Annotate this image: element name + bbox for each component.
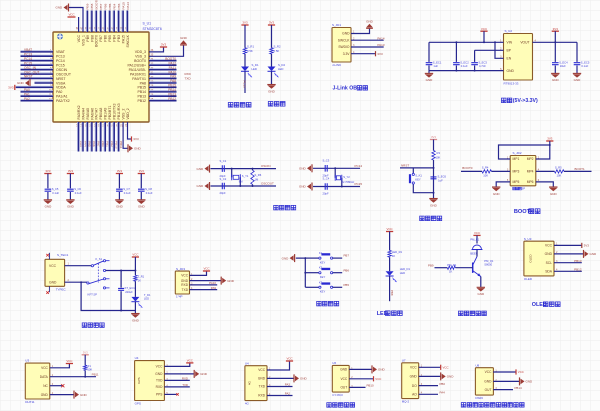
wire top PB8 [90, 11, 92, 33]
svg-text:PM_Q1: PM_Q1 [484, 259, 494, 263]
svg-text:0.1uF: 0.1uF [124, 191, 131, 195]
svg-text:GND: GND [426, 78, 434, 82]
svg-text:GPS: GPS [135, 401, 141, 405]
svg-text:PB0/A8: PB0/A8 [99, 108, 103, 120]
svg-text:MP4: MP4 [527, 170, 534, 174]
svg-text:PB6: PB6 [344, 268, 350, 272]
wire VOUT [533, 41, 578, 43]
svg-text:S_K1: S_K1 [415, 174, 422, 178]
svg-text:J-LINK: J-LINK [332, 63, 341, 67]
svg-text:NRST: NRST [401, 164, 409, 168]
connector U3 DHT11 [25, 363, 50, 399]
svg-text:VCC: VCC [41, 366, 48, 370]
wire VIN rail [429, 41, 504, 43]
svg-text:GND: GND [590, 252, 598, 256]
svg-text:3V3: 3V3 [431, 135, 436, 139]
svg-text:PA11/USB-: PA11/USB- [129, 68, 147, 72]
svg-text:PB5: PB5 [108, 3, 112, 9]
wire PA9 [149, 76, 177, 78]
svg-text:GND: GND [56, 6, 64, 10]
resistor S_R4 10K [482, 170, 492, 173]
label power 5V to 3.3V [502, 98, 507, 103]
svg-text:SWDIO: SWDIO [338, 45, 350, 49]
svg-text:PB13: PB13 [574, 259, 582, 263]
label key circuit [317, 301, 322, 306]
svg-text:GND: GND [268, 89, 276, 93]
svg-text:EN: EN [507, 57, 512, 61]
svg-text:GND: GND [410, 375, 418, 379]
svg-text:S_C6: S_C6 [74, 187, 81, 191]
svg-text:GND: GND [526, 380, 534, 384]
wire PC15 [21, 63, 54, 65]
svg-text:S_C2: S_C2 [220, 177, 227, 181]
svg-text:20pF: 20pF [220, 191, 226, 195]
wire R to LED [134, 281, 136, 297]
svg-text:VCC: VCC [443, 366, 449, 370]
svg-text:PA3/RX2: PA3/RX2 [77, 105, 81, 119]
svg-text:PB13: PB13 [137, 95, 146, 99]
svg-text:TXD: TXD [156, 379, 163, 383]
wire top PB3 [117, 11, 119, 33]
svg-text:VDD_3: VDD_3 [135, 50, 146, 54]
wire GND [190, 280, 222, 282]
svg-text:VBAT: VBAT [24, 48, 32, 52]
wire BP [475, 49, 504, 51]
svg-text:SWCLK: SWCLK [338, 38, 351, 42]
svg-text:BOOT0: BOOT0 [165, 57, 176, 61]
svg-text:SDA: SDA [545, 270, 553, 274]
svg-text:3V3: 3V3 [161, 43, 167, 47]
wire PA10 [149, 72, 177, 74]
svg-text:1uF: 1uF [433, 64, 438, 68]
svg-text:PB13: PB13 [168, 93, 176, 97]
svg-text:U6: U6 [332, 361, 336, 365]
label power circuit [82, 323, 87, 328]
svg-text:OUT: OUT [340, 386, 347, 390]
svg-text:PA11: PA11 [169, 66, 177, 70]
connector S_TEC1 TYPEC [45, 259, 65, 286]
power port 3V3 [375, 51, 377, 56]
capacitor S_EC5 0.1uF [576, 42, 578, 62]
svg-text:KEY: KEY [320, 260, 326, 264]
svg-text:VCC: VCC [77, 35, 81, 43]
svg-text:3V3: 3V3 [269, 21, 275, 25]
wire VCC [190, 271, 207, 275]
wire bottom PB11 [117, 122, 119, 152]
svg-text:TYPEC: TYPEC [56, 288, 67, 292]
svg-text:3V3: 3V3 [553, 27, 559, 31]
svg-text:RXD: RXD [156, 385, 163, 389]
svg-text:GND: GND [227, 279, 235, 283]
svg-text:U7: U7 [402, 358, 406, 362]
resistor S_R2 0.5K [270, 48, 273, 54]
svg-text:0.1uF: 0.1uF [75, 191, 82, 195]
svg-text:PC15: PC15 [355, 182, 363, 186]
svg-text:PB15: PB15 [168, 84, 176, 88]
svg-text:LED: LED [144, 297, 149, 301]
svg-text:VCC: VCC [258, 368, 265, 372]
svg-text:S_EC6: S_EC6 [438, 175, 447, 179]
wire VCC [267, 361, 290, 370]
svg-text:BOOT0: BOOT0 [134, 59, 146, 63]
wire OUT to PB10 [349, 386, 365, 388]
svg-text:PB9: PB9 [428, 264, 434, 268]
svg-text:S_R2: S_R2 [274, 45, 281, 49]
svg-text:S_C8: S_C8 [145, 187, 152, 191]
svg-text:VSSA: VSSA [56, 81, 66, 85]
label hall sensor [327, 403, 332, 408]
svg-text:PA8: PA8 [140, 81, 146, 85]
wire BOOT1 row right [536, 170, 555, 172]
power port 3V3 bottom [131, 136, 133, 141]
svg-text:SWCLK: SWCLK [126, 34, 130, 47]
svg-text:PB3: PB3 [117, 3, 121, 9]
svg-text:PC13: PC13 [56, 55, 65, 59]
label power LED [268, 102, 273, 107]
svg-text:PB14: PB14 [515, 386, 522, 390]
svg-text:3V3: 3V3 [377, 52, 383, 56]
svg-text:PA4/A4: PA4/A4 [81, 108, 85, 120]
svg-text:GND: GND [430, 203, 438, 207]
power port GND [440, 372, 442, 380]
svg-text:S_C5: S_C5 [52, 187, 59, 191]
svg-text:GND: GND [67, 205, 75, 209]
wire DO to PB0 [419, 385, 438, 387]
wire GND rail [429, 70, 504, 72]
power port GND [73, 391, 75, 399]
svg-text:PA15: PA15 [121, 35, 125, 43]
resistor S_R5 10K [555, 170, 565, 173]
wire GND bus [296, 258, 306, 287]
svg-text:GND: GND [41, 393, 49, 397]
wire top PB4 [112, 11, 114, 33]
svg-text:NRST: NRST [24, 75, 33, 79]
svg-text:PB11: PB11 [119, 141, 123, 149]
svg-text:S_EC1: S_EC1 [433, 60, 442, 64]
svg-text:VCC: VCC [485, 370, 492, 374]
svg-text:VCC: VCC [545, 244, 553, 248]
svg-text:VBAT: VBAT [56, 50, 66, 54]
svg-text:CY-8C3: CY-8C3 [332, 393, 343, 397]
svg-text:MP1: MP1 [513, 157, 520, 161]
wire PA12 [149, 63, 177, 65]
svg-text:VCC: VCC [156, 365, 163, 369]
svg-text:S_EC5: S_EC5 [581, 60, 590, 64]
svg-text:1K: 1K [449, 270, 452, 274]
svg-text:PA7/A7: PA7/A7 [95, 108, 99, 120]
wire PB12 [149, 99, 177, 101]
svg-text:PA0: PA0 [24, 88, 30, 92]
svg-text:TXD: TXD [185, 77, 192, 81]
power port GND [293, 374, 295, 382]
wire GND [267, 377, 294, 379]
svg-text:32.768KHz: 32.768KHz [342, 180, 356, 184]
svg-text:PA9: PA9 [211, 286, 217, 290]
svg-text:VDD_2: VDD_2 [126, 108, 130, 119]
svg-text:PB5: PB5 [344, 283, 350, 287]
power port VCC [373, 376, 375, 381]
svg-text:VCC: VCC [387, 227, 393, 231]
wire bottom PA5 [85, 122, 87, 152]
svg-text:BOOT0: BOOT0 [95, 35, 99, 47]
capacitor S_EC6 1uF [431, 177, 437, 179]
svg-text:PC14: PC14 [56, 59, 65, 63]
svg-text:PB11/RX3: PB11/RX3 [117, 103, 121, 119]
wire VCC [164, 363, 189, 367]
svg-text:KT_EC1: KT_EC1 [125, 286, 136, 290]
resistor R3 10K [432, 151, 435, 161]
wire PC13 [21, 54, 54, 56]
svg-text:DO: DO [412, 384, 417, 388]
connector U8 DS06 [475, 368, 493, 395]
ground below EC1 [428, 71, 430, 74]
transistor PM_Q1 S8050 NPN [472, 263, 474, 273]
svg-text:GND: GND [299, 167, 307, 171]
svg-text:PB8: PB8 [90, 3, 94, 9]
svg-text:PA12: PA12 [168, 61, 176, 65]
power port GND [311, 164, 313, 172]
capacitor S_EC3 4.7nF [474, 50, 476, 62]
svg-text:T_R1: T_R1 [138, 274, 145, 278]
connector S_JD3 1x4P [175, 271, 189, 294]
capacitor S_EC4 10uF [554, 42, 556, 62]
svg-text:PB14: PB14 [168, 88, 176, 92]
label reset circuit [420, 216, 425, 221]
svg-text:PB0: PB0 [440, 382, 446, 386]
wire R to LED [271, 54, 273, 67]
svg-text:GND: GND [299, 185, 307, 189]
svg-text:OSCOUT: OSCOUT [56, 72, 72, 76]
svg-text:AO: AO [412, 393, 417, 397]
power port GND left bottom [209, 182, 211, 190]
svg-text:MP2: MP2 [527, 157, 534, 161]
wire top BOOT0 [94, 11, 96, 33]
wire VCC to 3V3 [554, 244, 582, 246]
svg-text:PC14: PC14 [355, 164, 363, 168]
svg-text:GND: GND [200, 372, 208, 376]
svg-text:PB8: PB8 [90, 35, 94, 42]
buzzer PM_B1 [473, 245, 482, 249]
wire VCC [419, 366, 441, 368]
power port GND at U1 VSSA [29, 79, 31, 87]
wire 3V3 to R2 [271, 25, 273, 48]
ground [492, 186, 500, 188]
svg-text:PA5/A5: PA5/A5 [86, 108, 90, 120]
svg-text:NC: NC [43, 384, 48, 388]
svg-text:GND: GND [17, 81, 25, 85]
capacitor S_C1 20pF [222, 165, 224, 172]
LED LED_D1 [386, 271, 394, 276]
wire BOOT0 row [461, 170, 482, 172]
wire LED to GND [134, 302, 136, 314]
wire GND down to rail [81, 282, 135, 310]
svg-text:U8: U8 [475, 363, 479, 367]
svg-text:RXD: RXD [182, 376, 188, 380]
svg-text:VCC: VCC [66, 359, 72, 363]
power port VCC [515, 369, 517, 374]
wire PA8 [149, 81, 177, 83]
svg-text:VCC: VCC [132, 253, 138, 257]
wire TXD [164, 379, 189, 381]
wire PA11 [149, 68, 177, 70]
wire VCC [493, 371, 516, 373]
ground [549, 186, 557, 188]
svg-text:GND: GND [134, 147, 142, 151]
svg-text:PB6: PB6 [104, 3, 108, 9]
svg-text:T_D1: T_D1 [144, 293, 151, 297]
wire SCL to PB13 [554, 262, 582, 264]
svg-text:PA13: PA13 [377, 43, 384, 47]
svg-text:GND: GND [300, 377, 308, 381]
svg-text:S_TEC1: S_TEC1 [57, 253, 69, 257]
svg-text:GND: GND [155, 372, 163, 376]
power port GND [294, 254, 296, 262]
svg-text:PB4: PB4 [113, 35, 117, 42]
wire VCC to R [389, 232, 391, 251]
svg-text:0.5K: 0.5K [274, 49, 280, 53]
wire LED to PC13 [244, 71, 246, 93]
wire button to GND rail [413, 184, 433, 193]
svg-text:S_C1: S_C1 [220, 159, 227, 163]
svg-text:S_U3: S_U3 [524, 237, 532, 241]
wire 3V3 to R3 [433, 140, 435, 151]
svg-text:VCC: VCC [203, 267, 209, 271]
power port GND [371, 365, 373, 373]
svg-text:GND: GND [366, 20, 374, 24]
LED T_D1 [131, 297, 139, 302]
svg-text:S_C7: S_C7 [123, 187, 130, 191]
svg-text:PB11: PB11 [92, 373, 99, 377]
wire row1 loop to 3V3 [499, 145, 550, 159]
svg-text:MP3: MP3 [513, 170, 520, 174]
ground [131, 313, 139, 315]
wire NRST [21, 76, 54, 78]
svg-text:220uF: 220uF [125, 290, 133, 294]
resistor S_R6 1M [251, 170, 254, 184]
power port GND [220, 277, 222, 285]
svg-text:PB4: PB4 [112, 3, 116, 9]
svg-text:0.1uF: 0.1uF [52, 191, 59, 195]
svg-text:3V3: 3V3 [8, 86, 14, 90]
wire VSS_1 to GND rail [69, 8, 84, 33]
wire SDA to PB12 [554, 270, 582, 272]
wire PC15 rail [313, 186, 360, 188]
connector U7 MQ-2 [402, 363, 419, 399]
regulator S_U2 RT9013-33 [504, 34, 533, 81]
svg-text:GND: GND [197, 167, 205, 171]
svg-text:VCC: VCC [181, 274, 188, 278]
svg-text:GND: GND [507, 69, 515, 73]
capacitor KT_EC1 220uF [120, 271, 122, 288]
wire TXD to PA3 [267, 386, 293, 388]
svg-text:DHT11: DHT11 [25, 400, 35, 404]
svg-text:3.3V: 3.3V [343, 52, 351, 56]
label buzzer circuit [459, 311, 464, 316]
svg-text:S_Y2: S_Y2 [343, 175, 350, 179]
svg-text:MQ-2: MQ-2 [402, 399, 410, 403]
wire VCC node [134, 257, 136, 275]
resistor LED_R1 1K [388, 250, 391, 257]
power port GND [193, 370, 195, 378]
ground [267, 84, 275, 86]
power port GND top-left [68, 4, 70, 12]
svg-text:RXD: RXD [185, 72, 192, 76]
svg-text:PA9/TX1: PA9/TX1 [132, 77, 146, 81]
svg-text:KFT-2P: KFT-2P [88, 292, 98, 296]
wire GND [349, 368, 372, 370]
wire switch A out [106, 270, 136, 272]
svg-text:KEY: KEY [320, 290, 326, 294]
connector U4 GPS [135, 361, 165, 401]
LED S_D1 [241, 67, 249, 72]
svg-text:VCC: VCC [410, 366, 417, 370]
svg-text:LED: LED [278, 67, 283, 71]
svg-text:LED_R1: LED_R1 [392, 250, 403, 254]
push button S_K1 KEY [412, 168, 414, 173]
svg-text:PB7: PB7 [99, 35, 103, 42]
wire GND pin [65, 281, 87, 283]
svg-text:3V3: 3V3 [45, 169, 51, 173]
svg-text:SCL: SCL [546, 261, 553, 265]
LED S_D2 [268, 67, 276, 72]
svg-text:GND: GND [197, 184, 205, 188]
svg-text:J-Link OB: J-Link OB [333, 86, 358, 92]
svg-text:PPS: PPS [156, 393, 162, 397]
svg-text:S_JD1: S_JD1 [332, 23, 341, 27]
svg-text:PM_B1: PM_B1 [470, 238, 479, 242]
wire PB13 [149, 94, 177, 96]
label crystal circuit [274, 205, 279, 210]
wire PB15 [149, 85, 177, 87]
svg-text:PA1/A1: PA1/A1 [56, 95, 68, 99]
wire LED to GND [271, 71, 273, 84]
wire PC14 rail [313, 167, 360, 169]
svg-text:PB3: PB3 [117, 35, 121, 42]
svg-text:BOOT0: BOOT0 [462, 166, 473, 170]
svg-text:GND: GND [574, 78, 582, 82]
wire top PB6 [103, 11, 105, 33]
wire SWCLK to PA14 [351, 39, 384, 41]
svg-text:S8050: S8050 [484, 263, 492, 267]
power port 3V3 at U1 VDDA [16, 85, 53, 87]
wire row3 left to GND [496, 182, 510, 187]
wire VDD_2 to 3V3 [128, 122, 132, 139]
svg-text:TXD: TXD [182, 288, 189, 292]
wire VCC [50, 364, 70, 368]
svg-text:RXD: RXD [258, 394, 265, 398]
wire GND [493, 380, 519, 382]
wire OSC_OUT rail [211, 185, 277, 187]
svg-text:10K: 10K [557, 173, 562, 177]
svg-text:TXD: TXD [182, 383, 188, 387]
svg-text:3V3: 3V3 [133, 137, 139, 141]
svg-text:(5V->3.3V): (5V->3.3V) [513, 98, 538, 104]
svg-text:PM_R1: PM_R1 [447, 263, 456, 267]
switch S_K2 section A [91, 265, 93, 267]
capacitor S_C4 20pF [325, 183, 327, 190]
svg-text:BOOT1: BOOT1 [575, 167, 586, 171]
wire bottom PB2 [108, 122, 110, 152]
svg-text:3P: 3P [522, 187, 526, 191]
svg-text:OLED: OLED [529, 254, 533, 263]
jumper block S_JD2 BOOTx [510, 156, 536, 186]
power port GND [180, 44, 187, 46]
svg-text:PC15: PC15 [24, 61, 32, 65]
wire 3.3V to 3V3 [351, 53, 376, 55]
svg-text:S_EC3: S_EC3 [478, 60, 487, 64]
svg-text:S_U2: S_U2 [505, 29, 513, 33]
wire base [435, 267, 448, 269]
